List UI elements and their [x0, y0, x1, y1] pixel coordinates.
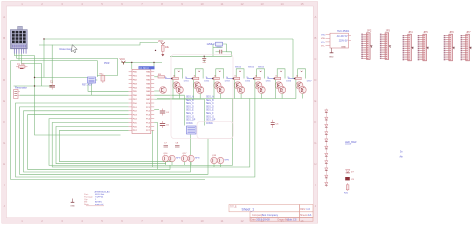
- connector JP5: [418, 30, 429, 61]
- wire vcc rail (IC top): [121, 61, 162, 63]
- driver stage 1: resistor R10, transistors Q1 Q2: [165, 71, 190, 99]
- svg-text:main ctrl: main ctrl: [95, 203, 104, 206]
- svg-text:SEG_C: SEG_C: [206, 103, 214, 105]
- svg-text:SEG_C: SEG_C: [186, 103, 194, 105]
- wire IC loop 2: [20, 107, 209, 174]
- IC U1 (MCU DIP-32): [129, 66, 155, 133]
- svg-text:SEG_G: SEG_G: [186, 116, 194, 118]
- svg-text:Note:: Note:: [84, 203, 90, 206]
- svg-text:2019-03-08: 2019-03-08: [256, 218, 270, 222]
- svg-text:COM1: COM1: [186, 123, 193, 125]
- capacitor C3 (xtal gnd): [202, 56, 206, 63]
- svg-text:VCC: VCC: [158, 40, 163, 43]
- svg-text:JP4: JP4: [408, 30, 413, 34]
- capacitor C2 (xtal): [216, 50, 227, 54]
- svg-text:220V-5V: 220V-5V: [339, 41, 348, 43]
- wire IC loop 4: [28, 115, 171, 170]
- wire IC loop 3: [24, 111, 191, 172]
- ground (bottom left): [71, 199, 75, 203]
- wire resonator top: [14, 85, 53, 87]
- title block: [229, 205, 313, 222]
- driver stage 6: resistor R15, transistors Q11 Q12: [267, 71, 292, 99]
- net labels segment bus B: [206, 96, 216, 125]
- wire stage hump loop: [236, 69, 244, 79]
- power VCC (IC): [121, 61, 125, 65]
- svg-text:B: B: [3, 36, 5, 40]
- svg-text:NPN: NPN: [176, 158, 181, 160]
- capacitor C1: [49, 81, 55, 90]
- svg-text:1k: 1k: [275, 76, 277, 78]
- svg-text:DIG4: DIG4: [245, 80, 251, 82]
- polarized capacitor C9: [345, 177, 350, 180]
- resistor R3: [158, 74, 165, 78]
- LED D4: [325, 132, 328, 135]
- node junction dots: [34, 38, 45, 86]
- svg-text:12: 12: [240, 219, 244, 223]
- wire IC loop 6: [60, 130, 173, 162]
- svg-text:10: 10: [200, 219, 204, 223]
- svg-text:VIN-: VIN-: [321, 38, 325, 40]
- ground (power module): [330, 48, 334, 53]
- driver stage 7: resistor R16, transistors Q13 Q14: [287, 71, 312, 99]
- svg-text:15: 15: [300, 2, 304, 6]
- wire IC loop 5: [56, 126, 166, 163]
- LED D8: [325, 161, 328, 164]
- svg-text:DIG7: DIG7: [307, 80, 313, 82]
- wire xtal left leg: [212, 44, 214, 56]
- svg-text:U1 MCU: U1 MCU: [139, 67, 149, 70]
- wire IC to stage 5: [52, 99, 250, 168]
- wire keypad pin 2 stub: [16, 54, 18, 59]
- svg-text:C: C: [3, 57, 5, 61]
- wire IC right d: [154, 123, 157, 170]
- svg-text:SEG_B: SEG_B: [206, 100, 214, 102]
- svg-text:SEG_DP: SEG_DP: [186, 120, 196, 122]
- svg-text:12MHz: 12MHz: [207, 42, 216, 46]
- LED D7: [325, 153, 328, 156]
- svg-text:A: A: [314, 15, 316, 19]
- svg-text:A: A: [3, 15, 5, 19]
- svg-text:S8550: S8550: [235, 67, 242, 69]
- svg-text:C: C: [314, 57, 316, 61]
- svg-text:VCC: VCC: [120, 57, 126, 61]
- wire stage hump loop: [298, 69, 306, 79]
- wire keypad row2: [17, 59, 118, 76]
- capacitor C5: [160, 121, 170, 128]
- pushbutton SW1 (reset, selected): [88, 77, 96, 83]
- svg-text:1k: 1k: [234, 76, 236, 78]
- svg-text:TITLE:: TITLE:: [230, 206, 238, 209]
- svg-text:Bob.CS: Bob.CS: [288, 218, 297, 222]
- connector JP4: [403, 30, 414, 61]
- svg-text:JP2: JP2: [367, 29, 372, 33]
- svg-text:SEG_D: SEG_D: [186, 106, 194, 108]
- wire keypad row1: [14, 54, 34, 56]
- connector JP1 (selected): [187, 126, 197, 134]
- wire IC right c: [154, 108, 159, 110]
- svg-text:13: 13: [260, 2, 264, 6]
- wire switch leg b: [91, 84, 93, 96]
- wire keypad pin 3 stub: [18, 54, 20, 61]
- svg-text:G: G: [3, 141, 5, 145]
- wire IC to stage 4: [49, 99, 232, 166]
- wire stage hump loop: [257, 69, 265, 79]
- wire keypad col pullup: [35, 77, 88, 79]
- wire reset cap drop: [51, 45, 53, 83]
- resistor R4: [100, 74, 105, 84]
- svg-text:G: G: [314, 141, 316, 145]
- svg-text:Test Company: Test Company: [262, 213, 279, 217]
- wire switch top row: [97, 75, 117, 77]
- LED D5: [325, 139, 328, 142]
- node junction (vcc rail): [131, 62, 155, 63]
- svg-text:D: D: [314, 78, 316, 82]
- resistor R20: [344, 183, 349, 195]
- svg-text:SEG_A: SEG_A: [186, 96, 194, 99]
- svg-text:B: B: [314, 36, 316, 40]
- wire switch drop: [96, 61, 98, 78]
- svg-text:15: 15: [300, 219, 304, 223]
- svg-text:1/1: 1/1: [308, 213, 312, 217]
- wire stage emitter bus: [157, 98, 296, 100]
- svg-text:SEG_E: SEG_E: [206, 110, 214, 112]
- wire stage hump loop: [216, 69, 224, 79]
- svg-text:H: H: [3, 162, 5, 166]
- svg-text:H: H: [314, 162, 316, 166]
- driver stage 3: resistor R12, transistors Q5 Q6: [206, 71, 231, 99]
- svg-text:1k: 1k: [173, 76, 175, 78]
- svg-text:VO-: VO-: [321, 45, 325, 47]
- part info text block: [84, 191, 110, 206]
- wire stage hump loop: [195, 69, 203, 79]
- svg-text:Resonator: Resonator: [15, 86, 27, 90]
- svg-text:NPN: NPN: [225, 160, 230, 162]
- wire drop at x44: [43, 39, 45, 78]
- svg-text:HLK-PM01: HLK-PM01: [337, 30, 350, 33]
- svg-text:1k: 1k: [194, 76, 196, 78]
- svg-text:F: F: [3, 120, 5, 124]
- transistor pair Q18: [211, 155, 230, 167]
- wire crystal net: [170, 55, 216, 57]
- svg-text:14: 14: [280, 2, 284, 6]
- capacitor C7 C8: [164, 143, 179, 145]
- svg-text:COM1: COM1: [206, 123, 213, 125]
- svg-text:D: D: [3, 78, 5, 82]
- wire mid column: [35, 86, 121, 135]
- resistor R2 (reset pullup) with VCC: [155, 40, 170, 56]
- wire switch right stub: [96, 79, 98, 81]
- svg-text:1k: 1k: [296, 76, 298, 78]
- connector JP2: [361, 29, 372, 60]
- wire top rail drop to stage 7: [293, 39, 294, 79]
- sheet border frame (decorative): [2, 2, 318, 224]
- capacitor C6: [271, 120, 279, 128]
- svg-text:JP3: JP3: [385, 29, 390, 33]
- svg-text:1k: 1k: [214, 76, 216, 78]
- LED D11: [325, 182, 328, 185]
- svg-text:REV:: REV:: [300, 208, 306, 211]
- svg-text:JP6: JP6: [449, 30, 454, 34]
- resistor R1: [16, 63, 28, 69]
- crystal X1: [207, 42, 223, 47]
- power module U2: [321, 30, 351, 49]
- svg-text:DIG1: DIG1: [184, 80, 190, 82]
- driver stage 5: resistor R14, transistors Q9 Q10: [246, 71, 271, 99]
- LED D2: [325, 117, 328, 120]
- wire mid vertical: [152, 130, 154, 167]
- svg-text:S8550: S8550: [248, 67, 255, 69]
- transistor pair Q17: [181, 153, 200, 165]
- net labels above stages: [235, 67, 265, 69]
- svg-text:GND: GND: [70, 206, 75, 208]
- svg-text:GND: GND: [341, 47, 346, 49]
- svg-text:F: F: [315, 120, 317, 124]
- svg-text:Reset key: Reset key: [60, 47, 73, 51]
- group outline (connector region): [197, 122, 233, 139]
- LED D6: [325, 146, 328, 149]
- mouse cursor: [72, 45, 78, 53]
- connector JP3: [380, 29, 391, 60]
- net label (right, small): [400, 151, 404, 159]
- wire VCC top rail: [44, 38, 293, 40]
- wire vcc stub: [122, 62, 124, 64]
- svg-text:SEG_D: SEG_D: [206, 106, 214, 108]
- wire xtal cap gnd: [203, 60, 205, 62]
- svg-text:AC-DC 5V: AC-DC 5V: [337, 35, 348, 38]
- wire stage hump loop: [175, 69, 183, 79]
- svg-text:TQFP44: TQFP44: [95, 196, 104, 198]
- wire seg col A: [154, 95, 184, 125]
- wire xtal right leg: [223, 44, 227, 52]
- svg-text:10: 10: [200, 2, 204, 6]
- svg-text:SEG_E: SEG_E: [186, 110, 194, 112]
- svg-text:JP7: JP7: [466, 30, 471, 34]
- wire IC right b: [154, 90, 159, 92]
- transistor pair Q16: [162, 153, 181, 165]
- svg-text:PWR: PWR: [104, 63, 110, 65]
- LED D3: [325, 124, 328, 127]
- wire vcc to IC pin1: [123, 62, 131, 69]
- wire IC right a: [154, 76, 158, 78]
- wire IC loop 1: [16, 99, 255, 178]
- svg-text:NPN: NPN: [195, 158, 200, 160]
- keypad S1 (4x4 matrix): [10, 26, 27, 53]
- driver stage 2: resistor R11, transistors Q3 Q4: [185, 71, 210, 99]
- svg-text:Sheet_1: Sheet_1: [242, 207, 255, 211]
- svg-text:1.0: 1.0: [306, 207, 310, 211]
- wire LED chain stem: [325, 109, 327, 188]
- svg-text:DIG3: DIG3: [225, 80, 231, 82]
- group outline (oscillator/driver region): [171, 55, 233, 139]
- resonator Y2: [14, 86, 28, 99]
- wire reset net: [39, 43, 158, 46]
- svg-text:DIG2: DIG2: [204, 80, 210, 82]
- svg-text:LED_BAR: LED_BAR: [345, 141, 357, 144]
- svg-text:SEG_A: SEG_A: [206, 96, 214, 99]
- LED D1: [325, 110, 328, 113]
- transistor Q15: [160, 87, 167, 94]
- svg-text:11: 11: [221, 2, 224, 6]
- wire keypad row4: [22, 54, 42, 87]
- wire stage hump loop: [277, 69, 285, 79]
- driver stage 4: resistor R13, transistors Q7 Q8: [226, 71, 251, 99]
- connector JP7: [461, 30, 472, 61]
- wire switch to IC a: [88, 84, 129, 92]
- diode D12: [346, 170, 355, 174]
- LED D9: [325, 168, 328, 171]
- net labels segment bus A: [186, 96, 196, 125]
- svg-text:DIG6: DIG6: [286, 80, 292, 82]
- svg-text:E: E: [3, 99, 5, 103]
- svg-text:S8550: S8550: [258, 67, 265, 69]
- capacitor C4: [160, 109, 170, 116]
- svg-text:1k: 1k: [255, 76, 257, 78]
- svg-text:GND: GND: [329, 56, 334, 58]
- svg-text:SEG_F: SEG_F: [186, 113, 194, 115]
- svg-text:E: E: [314, 99, 316, 103]
- svg-text:SEG_F: SEG_F: [206, 113, 214, 115]
- svg-text:12: 12: [240, 2, 244, 6]
- wire col drop: [34, 56, 36, 87]
- wire xtal bottom: [213, 47, 223, 49]
- LED D10: [325, 175, 328, 178]
- svg-text:SEG_G: SEG_G: [206, 116, 214, 118]
- svg-text:RST_KEY: RST_KEY: [82, 85, 93, 87]
- wire outer loop: [11, 61, 205, 180]
- svg-text:JP5: JP5: [423, 30, 428, 34]
- wire xtal cap stem: [203, 56, 205, 58]
- wire seg col B: [154, 99, 204, 125]
- wire to IC right top: [153, 62, 155, 69]
- svg-text:DIG5: DIG5: [266, 80, 272, 82]
- svg-text:11: 11: [221, 219, 224, 223]
- wire resonator to IC: [20, 94, 129, 96]
- connector JP6: [444, 30, 455, 61]
- svg-text:SEG_B: SEG_B: [186, 100, 194, 102]
- wire xtal loop: [216, 52, 232, 57]
